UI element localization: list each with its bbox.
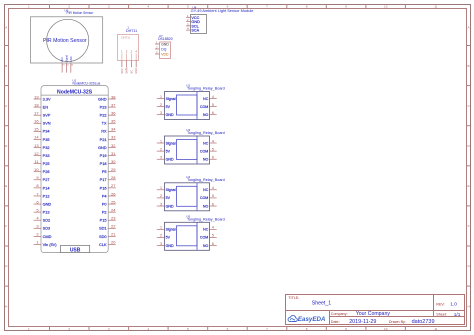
svg-text:38: 38 — [111, 94, 116, 99]
svg-text:Date:: Date: — [331, 320, 340, 324]
svg-text:REV:: REV: — [436, 302, 444, 306]
svg-text:29: 29 — [111, 167, 116, 172]
svg-text:NC: NC — [203, 97, 209, 101]
svg-text:6: 6 — [212, 242, 214, 246]
svg-text:30: 30 — [111, 159, 116, 164]
svg-text:GY-49 Ambient Light Sensor Mod: GY-49 Ambient Light Sensor Module — [191, 8, 254, 13]
svg-text:2: 2 — [160, 147, 162, 151]
svg-text:CMD: CMD — [43, 234, 52, 239]
svg-text:B: B — [468, 64, 470, 68]
svg-text:GND: GND — [135, 68, 138, 74]
svg-text:SD1: SD1 — [99, 226, 107, 231]
svg-text:DHT11: DHT11 — [126, 29, 137, 33]
svg-text:C: C — [5, 104, 8, 108]
svg-text:6: 6 — [227, 327, 229, 331]
svg-text:7: 7 — [266, 327, 268, 331]
svg-text:P4: P4 — [102, 193, 108, 198]
svg-text:8: 8 — [306, 327, 308, 331]
svg-text:8: 8 — [36, 183, 39, 188]
svg-text:P16: P16 — [100, 185, 107, 190]
svg-text:Tongling_Relay_Board: Tongling_Relay_Board — [187, 178, 225, 182]
svg-text:P5: P5 — [102, 169, 107, 174]
svg-text:1: 1 — [160, 95, 162, 99]
svg-text:2: 2 — [160, 234, 162, 238]
svg-text:COM: COM — [200, 149, 208, 153]
svg-text:P15: P15 — [100, 218, 107, 223]
svg-text:TITLE:: TITLE: — [288, 296, 299, 300]
svg-text:26: 26 — [111, 191, 116, 196]
svg-text:P23: P23 — [100, 104, 107, 109]
svg-text:Signal: Signal — [166, 188, 176, 192]
svg-text:5V: 5V — [166, 105, 171, 109]
svg-text:COM: COM — [200, 105, 208, 109]
svg-text:Signal: Signal — [64, 55, 68, 63]
svg-text:1: 1 — [28, 327, 30, 331]
svg-text:SVP: SVP — [43, 113, 51, 118]
svg-text:F: F — [5, 224, 7, 228]
svg-text:COM: COM — [200, 196, 208, 200]
svg-text:10: 10 — [384, 5, 388, 9]
svg-text:33: 33 — [111, 135, 116, 140]
svg-text:F: F — [468, 224, 470, 228]
svg-text:VCC: VCC — [60, 57, 64, 63]
svg-text:5V: 5V — [166, 196, 171, 200]
svg-text:5V: 5V — [166, 149, 171, 153]
svg-text:7: 7 — [266, 5, 268, 9]
svg-text:Sheet:: Sheet: — [436, 313, 447, 317]
svg-text:TX: TX — [102, 121, 107, 126]
svg-text:4: 4 — [148, 327, 150, 331]
svg-text:5: 5 — [187, 5, 189, 9]
svg-text:3: 3 — [160, 111, 162, 115]
svg-text:DHT11: DHT11 — [122, 36, 131, 40]
svg-text:1: 1 — [160, 226, 162, 230]
svg-text:VDD: VDD — [161, 52, 169, 56]
svg-text:6: 6 — [212, 202, 214, 206]
svg-text:5: 5 — [36, 207, 39, 212]
svg-text:P0: P0 — [102, 201, 108, 206]
svg-text:2: 2 — [131, 49, 133, 53]
svg-text:7: 7 — [36, 191, 39, 196]
svg-text:G: G — [5, 264, 8, 268]
svg-text:2: 2 — [68, 327, 70, 331]
svg-text:E: E — [5, 184, 7, 188]
svg-text:P35: P35 — [43, 137, 50, 142]
svg-text:SVN: SVN — [43, 121, 51, 126]
svg-text:4: 4 — [212, 139, 214, 143]
svg-text:5V: 5V — [166, 236, 171, 240]
svg-text:5: 5 — [212, 234, 214, 238]
svg-text:CLK: CLK — [99, 242, 107, 247]
svg-text:12: 12 — [34, 151, 39, 156]
svg-text:2: 2 — [36, 232, 39, 237]
svg-text:2: 2 — [160, 194, 162, 198]
svg-text:D: D — [5, 144, 8, 148]
svg-text:1: 1 — [28, 5, 30, 9]
svg-text:24: 24 — [111, 207, 116, 212]
svg-text:8: 8 — [306, 5, 308, 9]
svg-text:18: 18 — [34, 102, 39, 107]
svg-text:Vin (5V): Vin (5V) — [43, 242, 58, 247]
svg-text:2: 2 — [68, 5, 70, 9]
svg-text:NC: NC — [203, 228, 209, 232]
svg-text:1: 1 — [160, 186, 162, 190]
svg-text:EasyEDA: EasyEDA — [298, 316, 326, 323]
svg-text:3: 3 — [108, 5, 110, 9]
svg-text:1.0: 1.0 — [450, 302, 457, 308]
svg-text:GND: GND — [98, 96, 107, 101]
svg-text:28: 28 — [111, 175, 116, 180]
svg-text:Sheet_1: Sheet_1 — [312, 301, 331, 307]
svg-text:Tongling_Relay_Board: Tongling_Relay_Board — [187, 87, 225, 91]
svg-text:27: 27 — [111, 183, 116, 188]
svg-text:14: 14 — [34, 135, 39, 140]
svg-text:B: B — [5, 64, 7, 68]
svg-text:34: 34 — [111, 127, 116, 132]
svg-text:Tongling_Relay_Board: Tongling_Relay_Board — [187, 131, 225, 135]
svg-text:11: 11 — [34, 159, 39, 164]
svg-text:Signal: Signal — [166, 97, 176, 101]
svg-text:NodeMCU-32S: NodeMCU-32S — [57, 89, 93, 95]
svg-text:9: 9 — [345, 5, 347, 9]
svg-text:P2: P2 — [102, 210, 107, 215]
svg-text:3: 3 — [160, 156, 162, 160]
svg-text:22: 22 — [111, 224, 116, 229]
svg-text:PIR Motion Sensor: PIR Motion Sensor — [67, 11, 95, 15]
svg-text:P21: P21 — [100, 137, 107, 142]
svg-text:23: 23 — [111, 216, 116, 221]
svg-text:36: 36 — [111, 110, 116, 115]
svg-text:dato2739: dato2739 — [412, 319, 435, 325]
svg-text:DS18B20: DS18B20 — [158, 37, 173, 41]
svg-text:NO: NO — [203, 204, 209, 208]
svg-text:4: 4 — [148, 5, 150, 9]
svg-text:21: 21 — [111, 232, 116, 237]
svg-text:P22: P22 — [100, 113, 107, 118]
svg-text:10: 10 — [34, 167, 39, 172]
svg-text:NC: NC — [130, 70, 133, 74]
svg-text:5: 5 — [187, 327, 189, 331]
svg-text:11: 11 — [434, 5, 437, 9]
svg-text:3: 3 — [108, 327, 110, 331]
svg-text:10: 10 — [384, 327, 388, 331]
svg-text:6: 6 — [36, 199, 39, 204]
svg-text:EN: EN — [43, 104, 49, 109]
svg-text:GND: GND — [166, 204, 174, 208]
svg-text:P13: P13 — [43, 210, 50, 215]
svg-text:P19: P19 — [100, 153, 107, 158]
svg-text:4: 4 — [135, 49, 137, 53]
svg-text:11: 11 — [434, 327, 437, 331]
svg-text:P25: P25 — [43, 161, 50, 166]
svg-text:NO: NO — [203, 244, 209, 248]
svg-text:13: 13 — [34, 143, 39, 148]
svg-text:DATA: DATA — [126, 67, 129, 73]
svg-text:3: 3 — [160, 202, 162, 206]
svg-text:NodeMCU-32SLua: NodeMCU-32SLua — [73, 82, 101, 86]
svg-text:A: A — [5, 25, 8, 29]
svg-text:NC: NC — [203, 141, 209, 145]
svg-text:P18: P18 — [100, 161, 107, 166]
svg-text:Signal: Signal — [166, 228, 176, 232]
svg-text:SD0: SD0 — [99, 234, 107, 239]
svg-text:1: 1 — [121, 49, 123, 53]
svg-text:P12: P12 — [43, 193, 50, 198]
svg-text:37: 37 — [111, 102, 116, 107]
svg-text:3.3V: 3.3V — [43, 96, 51, 101]
svg-text:32: 32 — [111, 143, 116, 148]
svg-text:NO: NO — [203, 158, 209, 162]
svg-text:P33: P33 — [43, 153, 50, 158]
svg-text:COM: COM — [200, 236, 208, 240]
svg-text:GND: GND — [98, 145, 107, 150]
svg-text:SCA: SCA — [191, 29, 199, 33]
svg-text:RX: RX — [101, 129, 107, 134]
svg-text:1: 1 — [36, 240, 39, 245]
svg-text:2019-11-29: 2019-11-29 — [349, 319, 376, 325]
svg-text:USB: USB — [70, 248, 81, 254]
svg-text:P27: P27 — [43, 177, 50, 182]
svg-text:NO: NO — [203, 113, 209, 117]
svg-text:19: 19 — [34, 94, 39, 99]
svg-text:E: E — [468, 184, 470, 188]
svg-text:Your Company: Your Company — [356, 311, 391, 317]
svg-text:4: 4 — [36, 216, 39, 221]
svg-text:PIR Motion Sensor: PIR Motion Sensor — [43, 38, 87, 44]
svg-text:P32: P32 — [43, 145, 50, 150]
svg-text:15: 15 — [34, 127, 39, 132]
svg-text:VCC: VCC — [121, 68, 124, 73]
svg-text:6: 6 — [212, 111, 214, 115]
svg-text:3: 3 — [126, 49, 128, 53]
svg-text:5: 5 — [212, 103, 214, 107]
svg-text:GND: GND — [166, 158, 174, 162]
svg-text:SD3: SD3 — [43, 226, 51, 231]
svg-text:5: 5 — [212, 194, 214, 198]
svg-text:9: 9 — [36, 175, 39, 180]
svg-text:4: 4 — [212, 186, 214, 190]
svg-text:Signal: Signal — [166, 141, 176, 145]
svg-text:GND: GND — [166, 113, 174, 117]
svg-text:Tongling_Relay_Board: Tongling_Relay_Board — [187, 217, 225, 221]
svg-text:GND: GND — [69, 56, 73, 62]
svg-text:G: G — [467, 264, 470, 268]
svg-text:16: 16 — [34, 119, 39, 124]
svg-text:17: 17 — [34, 110, 39, 115]
svg-text:25: 25 — [111, 199, 116, 204]
svg-text:35: 35 — [111, 119, 116, 124]
svg-text:1/1: 1/1 — [454, 312, 461, 317]
svg-text:GND: GND — [43, 201, 52, 206]
svg-text:4: 4 — [212, 95, 214, 99]
svg-text:P17: P17 — [100, 177, 107, 182]
svg-text:4: 4 — [212, 226, 214, 230]
svg-text:NC: NC — [203, 188, 209, 192]
svg-text:P34: P34 — [43, 129, 51, 134]
svg-text:2: 2 — [160, 103, 162, 107]
svg-text:DQ: DQ — [161, 47, 166, 51]
svg-text:3: 3 — [160, 242, 162, 246]
svg-text:P26: P26 — [43, 169, 50, 174]
svg-text:SD2: SD2 — [43, 218, 51, 223]
svg-text:Company:: Company: — [331, 312, 348, 316]
svg-text:GND: GND — [166, 244, 174, 248]
svg-text:9: 9 — [345, 327, 347, 331]
svg-text:H: H — [5, 305, 7, 309]
svg-text:P14: P14 — [43, 185, 51, 190]
svg-text:Drawn By:: Drawn By: — [389, 320, 406, 324]
svg-text:1: 1 — [160, 139, 162, 143]
svg-text:3: 3 — [36, 224, 39, 229]
svg-text:20: 20 — [111, 240, 116, 245]
svg-text:31: 31 — [111, 151, 116, 156]
svg-text:GND: GND — [161, 42, 169, 46]
svg-text:H: H — [467, 305, 469, 309]
svg-text:6: 6 — [212, 156, 214, 160]
svg-text:5: 5 — [212, 147, 214, 151]
